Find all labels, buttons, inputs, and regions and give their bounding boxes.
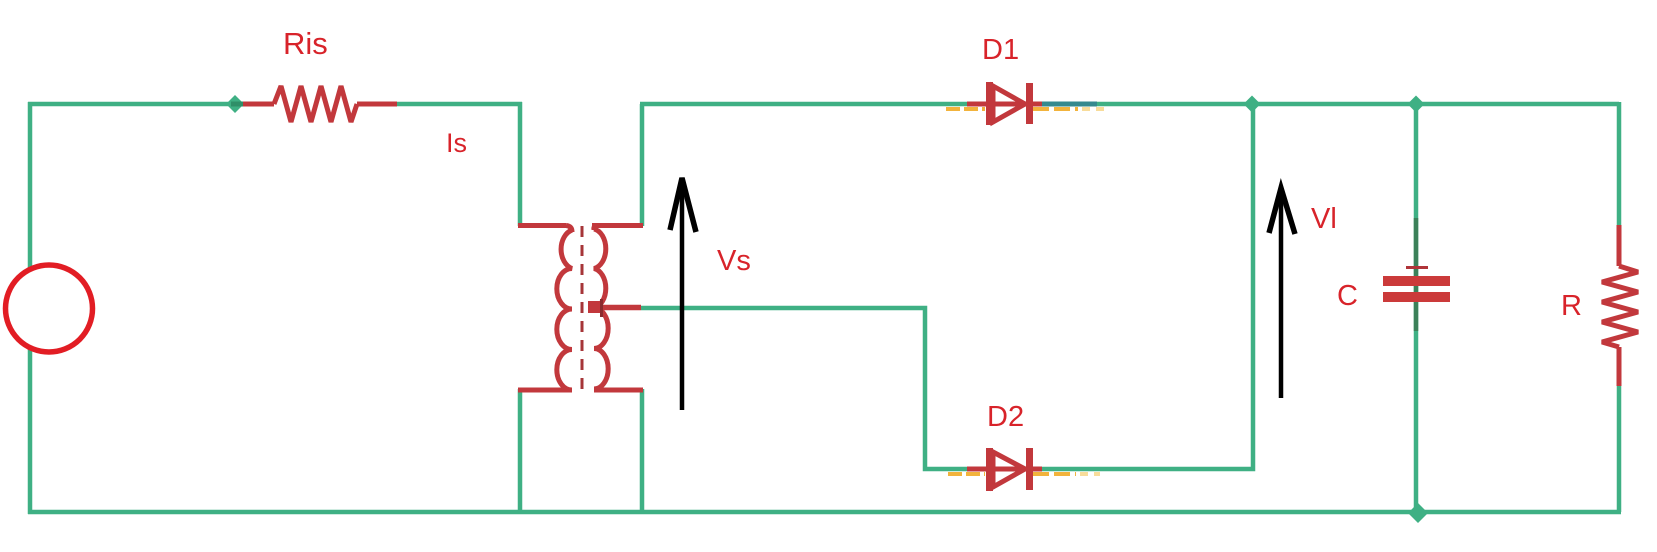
wire: capacitor vertical (1414, 104, 1419, 512)
wire: primary bottom vertical (518, 389, 523, 512)
wire: secondary top vertical (640, 104, 645, 226)
node: junction bottom rail / capacitor (1408, 503, 1428, 523)
node: junction at Ris input (226, 95, 244, 113)
wire: right vertical lower (1617, 384, 1622, 512)
wire: top rail right (640, 102, 1619, 107)
wire: secondary bottom vertical (640, 389, 645, 512)
transformer T1 core (581, 226, 584, 391)
source V1 (AC source circle) (6, 265, 93, 352)
capacitor C plates (1383, 276, 1450, 286)
wire: bottom rail (28, 510, 1621, 515)
arrow Vl (1269, 188, 1295, 398)
resistor R (1602, 225, 1638, 386)
artifact: teal smear right of D1 (1042, 102, 1097, 107)
wire: top-left rail segment B (394, 102, 522, 107)
wire: right vertical upper (1617, 102, 1622, 228)
capacitor C polarity mark (1406, 266, 1428, 269)
svg-text:Ris: Ris (283, 26, 328, 61)
resistor Ris (243, 86, 397, 122)
artifact: yellow dashes at D1 (946, 107, 1108, 111)
arrow Vs (670, 178, 696, 410)
wire: top-left rail segment A (28, 102, 246, 107)
wire: primary top vertical (518, 102, 523, 226)
transformer T1 center tap blob (588, 301, 601, 313)
svg-text:C: C (1337, 280, 1358, 312)
wire: capacitor lead dark overlay (1414, 218, 1419, 331)
node: dark band on junction (231, 102, 244, 107)
svg-text:Vl: Vl (1311, 203, 1337, 235)
node: junction top rail / D2 branch (1244, 96, 1261, 113)
transformer T1 primary winding (518, 226, 572, 391)
node: junction top rail / capacitor (1408, 96, 1425, 113)
svg-text:D1: D1 (982, 34, 1019, 66)
wire: left vertical (28, 102, 33, 514)
transformer T1 center tap (594, 305, 641, 311)
wire: center-tap run to D2 and up to top rail (641, 102, 1253, 469)
svg-text:Vs: Vs (717, 245, 751, 277)
artifact: yellow dashes at D2 (948, 472, 1100, 476)
diode D2 (967, 448, 1042, 491)
transformer T1 center tap tick (600, 299, 603, 317)
svg-text:Is: Is (446, 128, 467, 158)
transformer T1 secondary winding (592, 226, 643, 391)
diode D1 (967, 82, 1042, 125)
svg-text:D2: D2 (987, 401, 1024, 433)
svg-text:R: R (1561, 290, 1582, 322)
